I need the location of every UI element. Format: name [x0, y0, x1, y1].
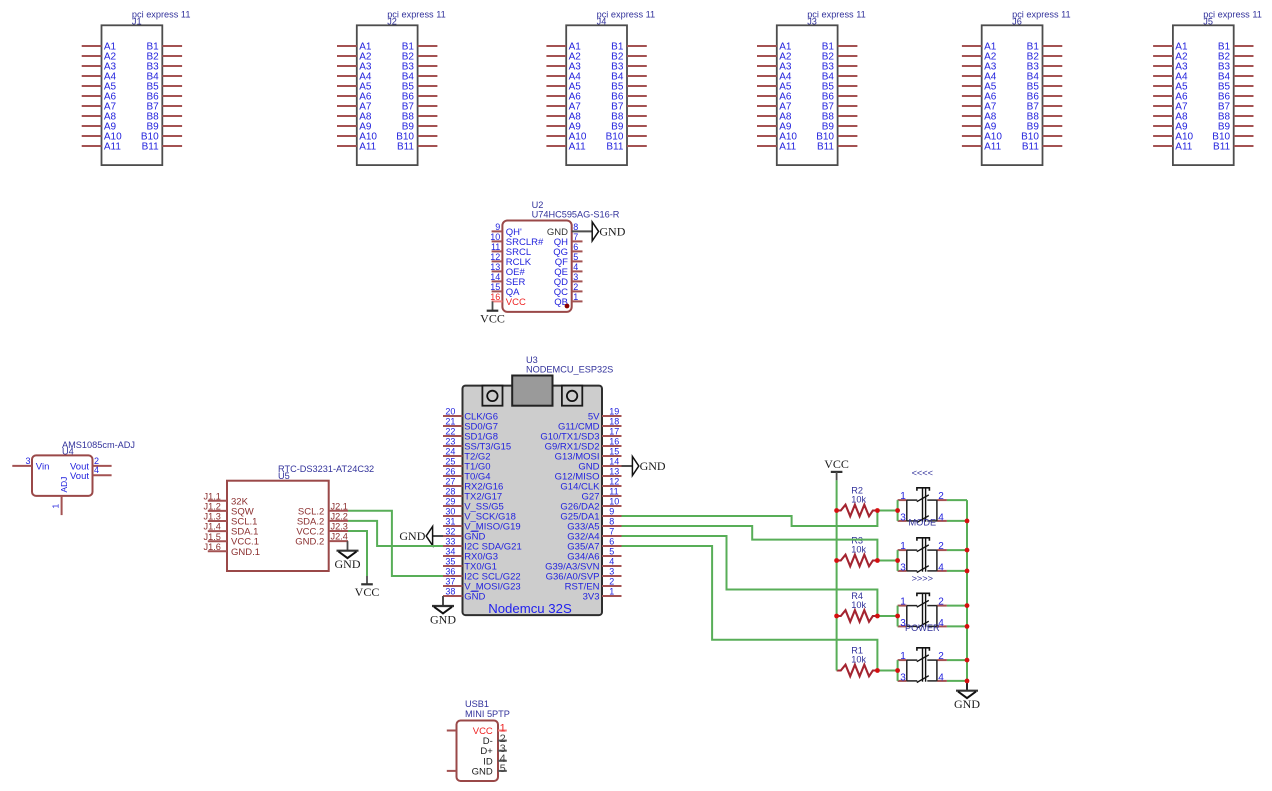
- pushbutton POWER button: [898, 593, 947, 633]
- pin B9 of J2: [402, 121, 438, 132]
- svg-text:25: 25: [445, 457, 455, 467]
- U3 body: [463, 386, 603, 615]
- U5 pin J2.3 VCC.2: [296, 522, 348, 538]
- wire VCC flag stub to rail: [836, 472, 838, 480]
- U3 pin 4 G39/A3/SVN: [545, 557, 621, 573]
- wire button3 pins 1-3: [897, 606, 899, 627]
- junction: [965, 569, 970, 574]
- svg-text:10: 10: [609, 497, 619, 507]
- refdes U3: [526, 355, 538, 365]
- pin A9 of J4: [546, 121, 581, 132]
- svg-text:3: 3: [609, 567, 614, 577]
- wire button pin2 to rail: [947, 659, 967, 661]
- pin B10 of J2: [396, 131, 437, 142]
- U2 pin 13 OE#: [490, 262, 525, 278]
- pin A9 of J5: [1153, 121, 1188, 132]
- USB1 shell pin bottom: [447, 770, 457, 772]
- wire U5 GND.2 down: [347, 541, 349, 551]
- pin A7 of J1: [82, 101, 117, 112]
- value label pci express 11 (J3): [807, 10, 866, 20]
- resistor R4 10k: [837, 591, 878, 622]
- pin B1 of J3: [822, 41, 858, 52]
- U3 pin 27 RX2/G16: [443, 477, 503, 493]
- pin B8 of J2: [402, 111, 438, 122]
- wire R4 to button3: [877, 615, 897, 617]
- wire U5 SDA.2 to U3 I2C SDA/G21: [348, 521, 443, 546]
- U5 pin J1.5 VCC.1: [204, 532, 259, 548]
- U2 pin 3 QD: [554, 272, 583, 288]
- wire G33/A5 to R3: [622, 526, 878, 561]
- U2 pin 11 SRCL: [491, 242, 531, 258]
- U2 pin 12 RCLK: [490, 252, 532, 268]
- U3 pin 24 T2/G2: [443, 447, 491, 463]
- svg-text:24: 24: [445, 447, 455, 457]
- pin A3 of J2: [337, 61, 372, 72]
- U2 pin 7 QH: [554, 232, 583, 248]
- pin B2 of J5: [1218, 51, 1254, 62]
- svg-text:1: 1: [900, 596, 906, 607]
- junction: [834, 508, 839, 513]
- pin A7 of J5: [1153, 101, 1188, 112]
- svg-text:17: 17: [609, 427, 619, 437]
- value label pci express 11 (J6): [1012, 10, 1071, 20]
- pin A4 of J1: [82, 71, 117, 82]
- svg-text:19: 19: [609, 407, 619, 417]
- U4 body: [32, 455, 93, 496]
- refdes USB1: [465, 699, 489, 709]
- svg-text:3: 3: [900, 513, 906, 524]
- connector J1 body: [102, 25, 163, 165]
- pin A8 of J1: [82, 111, 117, 122]
- pin A7 of J3: [757, 101, 792, 112]
- pin A7 of J6: [962, 101, 997, 112]
- pin A2 of J1: [82, 51, 117, 62]
- svg-text:7: 7: [609, 527, 614, 537]
- pin B7 of J1: [146, 101, 182, 112]
- refdes J4: [597, 17, 607, 27]
- svg-text:VCC: VCC: [824, 457, 849, 471]
- U3 pin 15 G13/MOSI: [555, 447, 622, 463]
- pin B4 of J6: [1027, 71, 1063, 82]
- svg-text:GND: GND: [335, 557, 361, 571]
- svg-text:J1.1: J1.1: [204, 491, 221, 501]
- svg-text:5: 5: [573, 252, 578, 262]
- wire R2 to button1: [877, 510, 897, 512]
- junction: [875, 508, 880, 513]
- module U3 NODEMCU_ESP32S: [443, 355, 622, 616]
- label >>>>: [912, 574, 933, 584]
- pin B10 of J6: [1021, 131, 1062, 142]
- U2 pin1 marker dot: [565, 304, 570, 309]
- pin A1 of J3: [757, 41, 792, 52]
- wire R1 to button4: [877, 670, 897, 672]
- svg-text:16: 16: [490, 292, 500, 302]
- svg-text:12: 12: [609, 477, 619, 487]
- svg-text:23: 23: [445, 437, 455, 447]
- wire button pin2 to rail: [947, 605, 967, 607]
- svg-text:10k: 10k: [851, 600, 866, 610]
- pin A5 of J2: [337, 81, 372, 92]
- pin B2 of J2: [402, 51, 438, 62]
- svg-text:U5: U5: [278, 471, 290, 481]
- U3 pin 25 T1/G0: [443, 457, 491, 473]
- svg-text:VCC: VCC: [506, 297, 526, 308]
- pin A10 of J4: [546, 131, 586, 142]
- pin B8 of J3: [822, 111, 858, 122]
- pin B11 of J5: [1213, 141, 1253, 152]
- pin B3 of J5: [1218, 61, 1254, 72]
- pin A1 of J1: [82, 41, 117, 52]
- connector J5 body: [1173, 25, 1234, 165]
- pin B8 of J6: [1027, 111, 1063, 122]
- ground flag below U5 GND.2: [335, 551, 361, 571]
- power flag VCC above resistor rail: [824, 457, 849, 472]
- pin B1 of J5: [1218, 41, 1254, 52]
- svg-text:<<<<: <<<<: [912, 468, 933, 478]
- junction: [965, 658, 970, 663]
- svg-text:4: 4: [573, 262, 578, 272]
- power flag VCC at U2 pin16: [480, 311, 505, 326]
- wire U5 SCL.2 to U3 I2C SCL/G22: [348, 511, 443, 576]
- svg-text:29: 29: [445, 497, 455, 507]
- svg-text:5: 5: [609, 547, 614, 557]
- refdes J6: [1012, 17, 1022, 27]
- junction: [895, 668, 900, 673]
- U3 pin 11 G27: [582, 487, 622, 503]
- wire right GND rail: [966, 500, 968, 681]
- ground flag at U2 pin8: [592, 222, 626, 241]
- value label pci express 11 (J1): [132, 10, 191, 20]
- svg-text:8: 8: [609, 517, 614, 527]
- svg-text:J1.5: J1.5: [204, 532, 221, 542]
- U3 pin 35 TX0/G1: [443, 557, 497, 573]
- ground flag below right rail: [954, 691, 980, 711]
- pin A8 of J2: [337, 111, 372, 122]
- U3 pin 22 SD1/G8: [443, 427, 498, 443]
- svg-text:15: 15: [490, 282, 500, 292]
- pin B7 of J2: [402, 101, 438, 112]
- U3 right mounting hole: [562, 386, 582, 406]
- pin A4 of J2: [337, 71, 372, 82]
- wire button1 pins 1-3: [897, 500, 899, 521]
- wire button pin2 to rail: [947, 499, 967, 501]
- U3 pin 18 G11/CMD: [558, 417, 622, 433]
- junction: [965, 548, 970, 553]
- USB1 pin 4 ID: [483, 753, 507, 767]
- U3 pin 12 G14/CLK: [560, 477, 621, 493]
- svg-text:21: 21: [445, 417, 455, 427]
- USB1 pin 1 VCC: [473, 723, 507, 737]
- pin A8 of J4: [546, 111, 581, 122]
- pin A8 of J6: [962, 111, 997, 122]
- svg-text:2: 2: [938, 491, 944, 502]
- svg-text:GND: GND: [430, 612, 456, 626]
- svg-text:9: 9: [609, 507, 614, 517]
- pin B2 of J4: [611, 51, 647, 62]
- svg-text:VCC: VCC: [480, 311, 505, 325]
- pin A5 of J3: [757, 81, 792, 92]
- value label pci express 11 (J5): [1203, 10, 1262, 20]
- pin A6 of J2: [337, 91, 372, 102]
- pin A9 of J1: [82, 121, 117, 132]
- module U5 RTC-DS3231-AT24C32: [204, 464, 375, 571]
- svg-text:GND: GND: [599, 225, 625, 239]
- pin A5 of J5: [1153, 81, 1188, 92]
- pin B11 of J3: [817, 141, 857, 152]
- svg-text:28: 28: [445, 487, 455, 497]
- pin A8 of J3: [757, 111, 792, 122]
- svg-text:J2.1: J2.1: [331, 501, 348, 511]
- U3 pin 36 I2C SCL/G22: [443, 567, 521, 583]
- refdes U2: [532, 200, 544, 210]
- wire G35/A7 to R1: [622, 546, 878, 671]
- pushbutton button 4: [898, 648, 947, 684]
- pin B5 of J5: [1218, 81, 1254, 92]
- USB1 pin 5 GND: [472, 763, 507, 777]
- svg-text:18: 18: [609, 417, 619, 427]
- U3 pin 38 GND: [443, 587, 485, 603]
- svg-text:4: 4: [609, 557, 614, 567]
- U4 pin 2 Vout: [70, 456, 112, 473]
- USB1 pin 3 D+: [480, 743, 506, 757]
- U3 pin 19 5V: [588, 407, 622, 423]
- wire button pin4 to rail: [947, 625, 967, 627]
- resistor R2 10k: [837, 485, 878, 516]
- pin A7 of J4: [546, 101, 581, 112]
- svg-text:3: 3: [900, 563, 906, 574]
- pin A11 of J2: [337, 141, 377, 152]
- svg-text:34: 34: [445, 547, 455, 557]
- ground flag at U3 pin32: [399, 527, 432, 546]
- U3 pin 21 SD0/G7: [443, 417, 498, 433]
- wire button pin4 to rail: [947, 520, 967, 522]
- label <<<<: [912, 468, 933, 478]
- pin A10 of J2: [337, 131, 377, 142]
- svg-text:J2.4: J2.4: [331, 532, 348, 542]
- U4 pin 4 Vout: [70, 465, 112, 482]
- pin A2 of J2: [337, 51, 372, 62]
- pushbutton MODE button: [898, 488, 947, 528]
- junction: [965, 624, 970, 629]
- U3 pin 33 I2C SDA/G21: [443, 537, 522, 553]
- wire U3 pin14 to GND flag: [622, 465, 633, 467]
- svg-text:A11: A11: [104, 141, 121, 152]
- pin A2 of J6: [962, 51, 997, 62]
- U3 pin 1 3V3: [583, 587, 622, 603]
- U5 pin J1.6 GND.1: [204, 542, 261, 558]
- svg-text:4: 4: [94, 465, 99, 475]
- USB1 body: [457, 721, 499, 782]
- U3 pin 29 V_SS/G5: [443, 497, 504, 513]
- pin B11 of J6: [1022, 141, 1062, 152]
- svg-text:32: 32: [445, 527, 455, 537]
- connector J2 body: [357, 25, 418, 165]
- U2 pin 9 QH': [492, 222, 522, 238]
- USB1 shell pin top: [447, 730, 457, 732]
- pin A3 of J3: [757, 61, 792, 72]
- svg-text:36: 36: [445, 567, 455, 577]
- junction: [965, 519, 970, 524]
- pin A11 of J5: [1153, 141, 1193, 152]
- svg-text:1: 1: [609, 587, 614, 597]
- connector J2 pci express 11: [337, 10, 446, 166]
- value MINI 5PTP: [465, 709, 510, 719]
- svg-text:>>>>: >>>>: [912, 574, 933, 584]
- svg-text:10: 10: [490, 232, 500, 242]
- svg-text:30: 30: [445, 507, 455, 517]
- pin A2 of J4: [546, 51, 581, 62]
- svg-text:B11: B11: [1213, 141, 1230, 152]
- refdes J5: [1203, 17, 1213, 27]
- wire R3 to button2: [877, 560, 897, 562]
- pin B9 of J1: [146, 121, 182, 132]
- junction: [875, 558, 880, 563]
- U5 pin J2.1 SCL.2: [298, 501, 348, 517]
- pin A5 of J6: [962, 81, 997, 92]
- value U74HC595AG-S16-R: [532, 210, 620, 220]
- junction: [834, 558, 839, 563]
- svg-text:11: 11: [609, 487, 618, 497]
- IC U2 U74HC595AG-S16-R: [490, 200, 620, 312]
- svg-text:2: 2: [938, 596, 944, 607]
- svg-text:GND.2: GND.2: [295, 537, 324, 548]
- svg-text:J2.2: J2.2: [331, 512, 348, 522]
- pin A1 of J2: [337, 41, 372, 52]
- pin B8 of J5: [1218, 111, 1254, 122]
- pin A11 of J4: [546, 141, 586, 152]
- U3 pin 23 SS/T3/G15: [443, 437, 511, 453]
- svg-text:33: 33: [445, 537, 455, 547]
- U3 pin 32 GND: [443, 527, 485, 543]
- U3 pin 37 V_MOSI/G23: [443, 577, 521, 593]
- svg-text:7: 7: [573, 232, 578, 242]
- svg-text:RTC-DS3231-AT24C32: RTC-DS3231-AT24C32: [278, 464, 374, 474]
- svg-text:NODEMCU_ESP32S: NODEMCU_ESP32S: [526, 365, 613, 375]
- pin B11 of J1: [142, 141, 182, 152]
- value label pci express 11 (J4): [597, 10, 656, 20]
- pin B1 of J6: [1027, 41, 1063, 52]
- pin B3 of J2: [402, 61, 438, 72]
- svg-text:14: 14: [490, 272, 500, 282]
- svg-text:A11: A11: [1175, 141, 1192, 152]
- pin A6 of J6: [962, 91, 997, 102]
- svg-text:37: 37: [445, 577, 455, 587]
- junction: [834, 614, 839, 619]
- svg-text:4: 4: [938, 673, 944, 684]
- pin A3 of J4: [546, 61, 581, 72]
- U3 pin 2 RST/EN: [565, 577, 622, 593]
- pin B7 of J4: [611, 101, 647, 112]
- pin B6 of J2: [402, 91, 438, 102]
- svg-text:9: 9: [495, 222, 500, 232]
- pushbutton button 2: [898, 538, 947, 574]
- pin B10 of J1: [141, 131, 182, 142]
- wire VCC.2 flag stub: [366, 576, 368, 584]
- pin B9 of J4: [611, 121, 647, 132]
- pin A10 of J3: [757, 131, 797, 142]
- U3 usb connector drawing: [512, 376, 552, 406]
- pin A11 of J6: [962, 141, 1002, 152]
- svg-text:GND: GND: [399, 529, 425, 543]
- svg-text:3: 3: [573, 272, 578, 282]
- pin B4 of J4: [611, 71, 647, 82]
- pin A3 of J1: [82, 61, 117, 72]
- svg-text:13: 13: [490, 262, 500, 272]
- svg-text:B11: B11: [606, 141, 623, 152]
- svg-text:Vin: Vin: [36, 461, 50, 472]
- U3 pin 3 G36/A0/SVP: [546, 567, 622, 583]
- wire U3 pin32 to GND flag: [433, 535, 443, 537]
- svg-text:3V3: 3V3: [583, 592, 600, 603]
- U5 pin J2.2 SDA.2: [297, 512, 348, 528]
- U4 pin 3 Vin: [12, 456, 49, 473]
- U5 pin J1.4 SDA.1: [204, 522, 259, 538]
- pin B1 of J4: [611, 41, 647, 52]
- U5 pin J2.4 GND.2: [295, 532, 348, 548]
- pin A11 of J3: [757, 141, 797, 152]
- svg-text:1: 1: [900, 541, 906, 552]
- svg-text:1: 1: [900, 491, 906, 502]
- svg-text:11: 11: [491, 242, 500, 252]
- U5 pin J1.2 SQW: [204, 502, 254, 518]
- junction: [965, 679, 970, 684]
- pin B6 of J1: [146, 91, 182, 102]
- U3 pin 17 G10/TX1/SD3: [540, 427, 621, 443]
- svg-text:13: 13: [609, 467, 619, 477]
- wire VCC rail to resistors: [836, 480, 838, 670]
- wire button pin4 to rail: [947, 570, 967, 572]
- wire U2 pin16 to VCC flag: [492, 301, 494, 310]
- refdes J3: [807, 17, 817, 27]
- svg-text:GND: GND: [954, 697, 980, 711]
- pin B4 of J5: [1218, 71, 1254, 82]
- pin B5 of J4: [611, 81, 647, 92]
- svg-text:B11: B11: [1022, 141, 1039, 152]
- pin B8 of J1: [146, 111, 182, 122]
- U3 pin 6 G35/A7: [567, 537, 621, 553]
- pin A4 of J6: [962, 71, 997, 82]
- svg-text:12: 12: [490, 252, 500, 262]
- svg-text:GND.1: GND.1: [231, 547, 260, 558]
- svg-text:20: 20: [445, 407, 455, 417]
- pin B4 of J3: [822, 71, 858, 82]
- wire U5 VCC.2 to VCC flag: [348, 531, 367, 576]
- svg-text:Nodemcu 32S: Nodemcu 32S: [488, 601, 572, 616]
- pin B9 of J6: [1027, 121, 1063, 132]
- wire button4 pins 1-3: [897, 660, 899, 681]
- U3 pin 8 G33/A5: [567, 517, 621, 533]
- pin B1 of J1: [146, 41, 182, 52]
- svg-text:B11: B11: [397, 141, 414, 152]
- pin A5 of J1: [82, 81, 117, 92]
- ground flag below U3 pin38: [430, 606, 456, 626]
- svg-text:6: 6: [609, 537, 614, 547]
- pin B6 of J3: [822, 91, 858, 102]
- svg-text:ADJ: ADJ: [59, 477, 69, 493]
- svg-text:31: 31: [445, 517, 455, 527]
- pin A6 of J3: [757, 91, 792, 102]
- pin B5 of J1: [146, 81, 182, 92]
- value AMS1085cm-ADJ: [62, 440, 135, 450]
- U3 pin 28 TX2/G17: [443, 487, 502, 503]
- pin B5 of J2: [402, 81, 438, 92]
- connector J3 pci express 11: [757, 10, 866, 166]
- pin B1 of J2: [402, 41, 438, 52]
- U3 pin 16 G9/RX1/SD2: [545, 437, 622, 453]
- U2 pin 4 QE: [554, 262, 582, 278]
- svg-text:2: 2: [573, 282, 578, 292]
- refdes J2: [387, 17, 397, 27]
